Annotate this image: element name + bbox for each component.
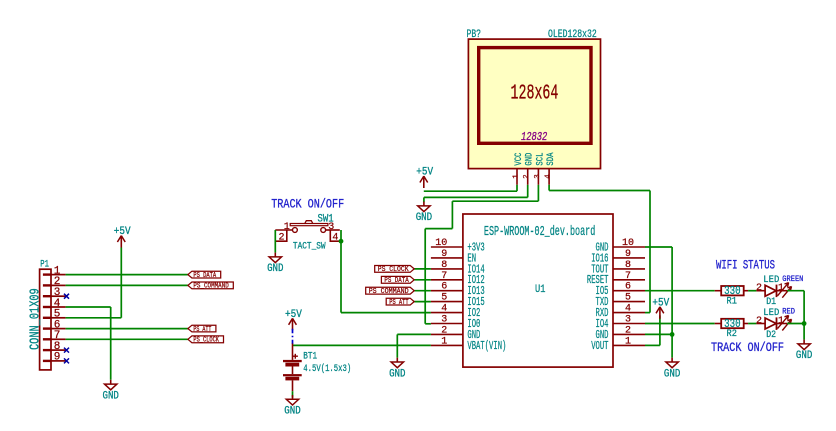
pin 8 TOUT of U1 (right)	[591, 260, 645, 276]
wire	[414, 301, 431, 303]
svg-text:GREEN: GREEN	[782, 274, 803, 284]
wire SCL from OLED to ESP IO0	[537, 185, 539, 201]
svg-text:9: 9	[54, 352, 61, 364]
wire OLED GND to ground	[527, 185, 529, 198]
svg-text:12832: 12832	[521, 131, 547, 144]
pin 3 SCL of OLED	[534, 153, 546, 185]
svg-text:4: 4	[625, 304, 631, 315]
svg-text:3: 3	[441, 315, 447, 326]
pin 1 of P1	[43, 273, 51, 275]
svg-text:R1: R1	[727, 295, 737, 307]
pin 6 of P1	[43, 327, 51, 329]
wire LED cathode rail to ground	[803, 291, 805, 340]
global label PS_CLOCK	[188, 336, 224, 345]
pin 3 IO4 of U1 (right)	[596, 315, 646, 331]
pin 3 of SW1	[326, 229, 340, 231]
svg-text:5: 5	[441, 293, 447, 304]
svg-text:2: 2	[523, 174, 531, 179]
svg-text:5: 5	[625, 293, 631, 304]
power +5V (battery)	[285, 309, 302, 331]
ground (battery)	[284, 395, 301, 418]
global label PS_ATT (U1)	[386, 298, 414, 307]
wire	[414, 279, 431, 281]
ground (U1 left GND)	[389, 358, 406, 381]
pin 1 VOUT of U1 (right)	[591, 336, 645, 352]
LED D2	[756, 307, 795, 341]
pin 9 IO16 of U1 (right)	[591, 249, 645, 265]
wire	[66, 338, 188, 340]
pin 6 IO5 of U1 (right)	[596, 282, 646, 298]
svg-text:9: 9	[441, 249, 447, 260]
svg-text:PS_CLOCK: PS_CLOCK	[378, 266, 410, 274]
svg-text:PS_DATA: PS_DATA	[384, 277, 409, 285]
ground (OLED)	[416, 202, 433, 225]
svg-text:D2: D2	[766, 329, 776, 341]
svg-text:9: 9	[625, 249, 631, 260]
global label PS_COMMAND	[188, 282, 233, 291]
junction SW1 pins 3-4	[339, 239, 344, 244]
global label PS_CLOCK (U1)	[375, 266, 415, 275]
svg-text:GND: GND	[267, 263, 284, 275]
svg-text:VOUT: VOUT	[591, 339, 608, 353]
wire	[787, 290, 804, 292]
wire SW1 pin2 to ground	[274, 230, 276, 253]
wire P1 pin5 to +5V	[66, 317, 122, 319]
pin 8 of P1	[43, 349, 51, 351]
wire U1 GND(right,pin10) to ground rail	[645, 246, 672, 248]
wire	[787, 323, 804, 325]
pin 4 IO2 of U1 (left)	[431, 304, 481, 320]
wire U1 GND(left) to ground	[397, 333, 431, 335]
svg-text:GND: GND	[796, 350, 813, 362]
svg-text:4.5V(1.5x3): 4.5V(1.5x3)	[303, 363, 351, 375]
pin 4 of P1	[43, 306, 51, 308]
resistor R2 330	[715, 317, 748, 340]
svg-text:4: 4	[545, 174, 553, 179]
svg-text:7: 7	[441, 271, 447, 282]
OLED display PB? OLED128x32	[467, 29, 601, 169]
svg-text:VBAT(VIN): VBAT(VIN)	[467, 339, 506, 353]
pin 2 of SW1	[275, 230, 287, 241]
svg-text:PS_ATT: PS_ATT	[389, 299, 409, 307]
svg-text:8: 8	[441, 260, 447, 271]
pin 9 EN of U1 (left)	[431, 249, 476, 265]
svg-text:3: 3	[534, 174, 542, 179]
wire	[414, 290, 431, 292]
connector P1 CONN_01X09	[28, 259, 66, 370]
wire OLED VCC to +5V	[516, 185, 518, 191]
wire	[645, 323, 715, 325]
svg-text:2: 2	[756, 283, 762, 294]
svg-text:R2: R2	[727, 328, 737, 340]
svg-text:TRACK ON/OFF: TRACK ON/OFF	[271, 197, 344, 212]
svg-text:6: 6	[441, 282, 447, 293]
LED D1	[756, 274, 803, 308]
wire	[66, 328, 188, 330]
pin 5 of P1	[43, 317, 51, 319]
power +5V (OLED)	[416, 167, 433, 189]
svg-text:6: 6	[625, 282, 631, 293]
ground (SW1)	[267, 253, 284, 276]
svg-text:GND: GND	[416, 212, 433, 224]
switch SW1 TACT_SW	[275, 213, 341, 252]
ground (P1 pin4)	[103, 380, 120, 403]
svg-text:PS_DATA: PS_DATA	[193, 272, 216, 280]
svg-text:ESP-WROOM-02_dev.board: ESP-WROOM-02_dev.board	[484, 224, 595, 240]
pin 4 RXD of U1 (right)	[596, 304, 646, 320]
global label PS_DATA	[188, 271, 221, 280]
pin 2 GND of OLED	[523, 153, 535, 185]
wire battery to ESP VBAT(VIN)	[293, 344, 431, 346]
pin 7 of P1	[43, 338, 51, 340]
svg-text:D1: D1	[766, 296, 776, 308]
pin 1 VCC of OLED	[513, 153, 525, 185]
svg-text:SDA: SDA	[545, 152, 557, 165]
global label PS_ATT	[188, 325, 216, 334]
svg-text:LED: LED	[763, 308, 779, 319]
pin 10 GND of U1 (right)	[596, 238, 646, 254]
svg-text:PB?: PB?	[467, 29, 482, 41]
svg-text:128x64: 128x64	[511, 82, 559, 105]
no-connect X on P1 pin 9	[64, 358, 69, 363]
pin 2 GND of U1 (left)	[431, 325, 481, 341]
svg-text:CONN_01X09: CONN_01X09	[28, 288, 44, 350]
pin 2 of P1	[43, 284, 51, 286]
pin 9 of P1	[43, 360, 51, 362]
svg-text:8: 8	[625, 260, 631, 271]
pin 5 TXD of U1 (right)	[596, 293, 646, 309]
svg-text:TACT_SW: TACT_SW	[293, 241, 326, 252]
ground (U1 right rail)	[664, 358, 681, 381]
svg-text:3: 3	[625, 315, 631, 326]
pin 7 RESET of U1 (right)	[587, 271, 645, 287]
svg-text:PS_ATT: PS_ATT	[193, 326, 211, 334]
svg-text:2: 2	[756, 316, 762, 327]
wire U1 GND(right,pin2) to ground rail	[645, 333, 672, 335]
wire P1 pin4 to GND	[66, 306, 111, 308]
junction GND rail	[670, 332, 675, 337]
no-connect X on P1 pin 3	[64, 294, 69, 299]
svg-text:1: 1	[513, 174, 521, 179]
junction D2 cathode rail	[802, 321, 807, 326]
svg-text:4: 4	[441, 304, 447, 315]
pin 8 IO14 of U1 (left)	[431, 260, 485, 276]
battery BT1 4.5V(1.5x3)	[283, 344, 351, 392]
pin 2 GND of U1 (right)	[596, 325, 646, 341]
svg-text:U1: U1	[535, 284, 546, 296]
wire	[414, 268, 431, 270]
no-connect X on P1 pin 8	[64, 348, 69, 353]
svg-text:RED: RED	[782, 307, 795, 317]
wire	[645, 290, 715, 292]
power +5V (VOUT)	[652, 297, 669, 319]
pin 3 of P1	[43, 295, 51, 297]
power +5V (P1)	[114, 226, 131, 248]
ESP module U1 ESP-WROOM-02_dev.board	[463, 214, 613, 367]
pin 10 +3V3 of U1 (left)	[431, 238, 485, 254]
pin 1 VBAT(VIN) of U1 (left)	[431, 336, 507, 352]
svg-text:P1: P1	[40, 259, 49, 270]
wire	[66, 274, 188, 276]
wire	[66, 284, 188, 286]
svg-text:PS_COMMAND: PS_COMMAND	[369, 288, 409, 296]
svg-text:WIFI STATUS: WIFI STATUS	[716, 258, 775, 272]
pin 6 IO13 of U1 (left)	[431, 282, 485, 298]
svg-text:1: 1	[625, 336, 631, 347]
wire SW1 to ESP IO2	[340, 230, 342, 313]
pin 5 IO15 of U1 (left)	[431, 293, 485, 309]
svg-text:2: 2	[441, 325, 447, 336]
svg-text:OLED128x32: OLED128x32	[548, 29, 597, 41]
svg-text:GND: GND	[664, 368, 681, 380]
pin 4 SDA of OLED	[545, 152, 557, 185]
wire SDA from OLED to ESP RXD	[548, 185, 550, 191]
svg-text:TRACK ON/OFF: TRACK ON/OFF	[711, 340, 784, 355]
svg-text:10: 10	[622, 238, 634, 249]
global label PS_COMMAND (U1)	[366, 287, 415, 296]
svg-text:GND: GND	[389, 368, 406, 380]
svg-text:7: 7	[625, 271, 631, 282]
pin 4 of SW1	[330, 230, 341, 241]
wire	[748, 290, 756, 292]
svg-text:PS_CLOCK: PS_CLOCK	[193, 337, 219, 345]
wire battery minus to ground	[292, 391, 294, 398]
pin 3 IO0 of U1 (left)	[431, 315, 481, 331]
svg-text:10: 10	[435, 238, 447, 249]
svg-text:2: 2	[625, 325, 631, 336]
wire U1 VOUT to +5V	[645, 344, 660, 346]
svg-text:GND: GND	[103, 390, 120, 402]
global label PS_DATA (U1)	[381, 276, 414, 285]
svg-text:BT1: BT1	[303, 352, 317, 363]
svg-text:PS_COMMAND: PS_COMMAND	[193, 283, 228, 291]
pin 1 of SW1	[275, 229, 292, 231]
svg-text:GND: GND	[284, 406, 301, 418]
dashed graphic line +5V to battery	[292, 329, 294, 344]
svg-text:1: 1	[441, 336, 447, 347]
wire	[748, 323, 756, 325]
svg-text:2: 2	[278, 233, 284, 244]
resistor R1 330	[715, 284, 748, 307]
pin 7 IO12 of U1 (left)	[431, 271, 485, 287]
ground (LED rail)	[796, 340, 813, 363]
svg-text:4: 4	[332, 232, 338, 243]
svg-text:LED: LED	[763, 275, 779, 286]
